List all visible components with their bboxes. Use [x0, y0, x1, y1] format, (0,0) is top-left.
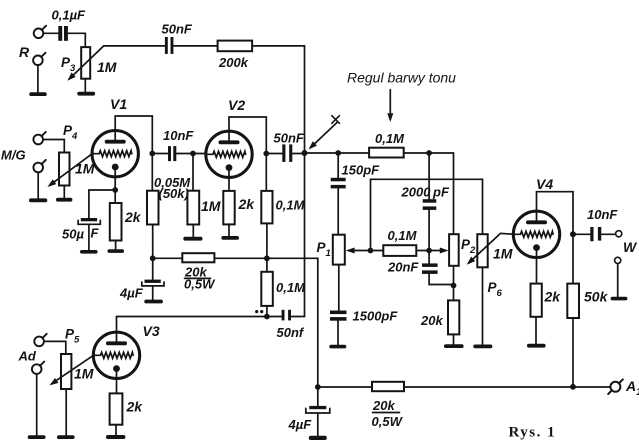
resistor 200k: [218, 41, 253, 52]
wire V1 anode up/right/down: [115, 116, 152, 191]
node wiper junction: [368, 248, 374, 254]
wire 0,1M to node: [416, 250, 429, 252]
svg-text:2k: 2k: [124, 209, 142, 225]
wire Ad to P5: [44, 341, 66, 354]
ground below 1500pF: [329, 345, 346, 349]
P3 wiper arrow: [65, 46, 103, 83]
ground below P3: [77, 92, 95, 96]
wire MG lower to ground: [37, 172, 39, 198]
svg-text:0,1M: 0,1M: [276, 280, 306, 295]
wire 0,1M to P2 corner: [404, 153, 454, 234]
ground below 1M: [183, 237, 202, 241]
wire 20k to ground: [453, 334, 455, 344]
potentiometer P5: [61, 354, 71, 389]
capacitor 1500pF: [330, 311, 347, 321]
terminal R lower: [33, 53, 45, 65]
wire R to C: [43, 32, 58, 34]
svg-text:50µ: 50µ: [62, 227, 84, 242]
wire wiper to 50nF: [104, 45, 165, 47]
resistor 0,05M (50k): [147, 191, 159, 225]
terminal W lower: [615, 257, 621, 263]
node bus left: [150, 255, 156, 261]
resistor 0,1M tone: [369, 148, 404, 158]
terminal W upper: [616, 231, 622, 237]
node bus 0,1M: [264, 255, 270, 261]
wire MG to P4: [43, 140, 64, 153]
wire bus to corner: [214, 258, 317, 387]
wire 1M to ground: [192, 225, 194, 237]
svg-text:50nF: 50nF: [162, 22, 193, 37]
wire node to 50nF: [266, 153, 282, 155]
svg-text:W: W: [623, 239, 638, 255]
wire P2 to junction: [453, 266, 455, 301]
resistor 20k: [448, 300, 459, 334]
svg-text:1M: 1M: [75, 161, 95, 177]
wire node X to 0,1M: [305, 152, 370, 154]
svg-text:A1: A1: [625, 378, 639, 398]
fraction bar: [373, 412, 400, 414]
svg-text:P4: P4: [63, 123, 78, 142]
capacitor 4uF electrolytic bottom: [306, 406, 330, 413]
node cathode V1: [112, 187, 118, 193]
capacitor 150pF: [331, 178, 346, 189]
capacitor 10nF: [168, 146, 176, 161]
wire 50nF to 200k: [173, 45, 217, 47]
wire P6 to ground: [482, 267, 484, 344]
svg-text:V3: V3: [143, 323, 160, 339]
wire V2 cathode: [228, 168, 230, 191]
wire 200k down to node X and bottom row: [252, 46, 304, 317]
wire bus to 20k: [318, 386, 372, 388]
wire 0,1M to bottom row: [266, 306, 268, 317]
P4 wiper arrow to V1 grid: [46, 154, 93, 190]
node P2 bottom: [451, 283, 457, 289]
svg-text:2k: 2k: [544, 289, 562, 305]
wire junction to 0,1M: [371, 250, 384, 252]
svg-text:2k: 2k: [238, 196, 256, 212]
wire P1 to 1500pF: [338, 265, 340, 311]
P1 wiper arrow: [346, 248, 371, 254]
wire node to 10nF: [573, 233, 590, 235]
resistor 20k 0,5W bottom: [372, 382, 404, 391]
resistor 20k 0,5W: [182, 253, 214, 262]
resistor 0,1M shelving: [383, 245, 416, 256]
resistor 2k V2: [223, 191, 234, 225]
resistor 50k: [567, 284, 579, 318]
capacitor 0.1uF: [58, 26, 68, 41]
triode V3: [93, 332, 139, 378]
wire junction up over to P6: [371, 179, 483, 250]
wire V4 anode up/right/down: [537, 192, 574, 284]
svg-text:150pF: 150pF: [342, 163, 381, 178]
wire cathode to 50uF: [89, 190, 115, 218]
wire node to 4uF: [152, 258, 154, 279]
ground below MG: [29, 198, 47, 202]
wire V3 anode up: [116, 317, 118, 342]
svg-text:P6: P6: [488, 280, 503, 299]
dot 2: [260, 310, 263, 313]
dots ..: [255, 310, 258, 313]
svg-text:200k: 200k: [218, 55, 249, 70]
wire 10nF to V2 grid: [176, 153, 206, 155]
terminal Ad upper: [34, 334, 46, 346]
ground below 20k: [444, 344, 464, 348]
wire C to P3: [68, 33, 85, 47]
svg-text:2000: 2000: [401, 185, 432, 200]
wire V3 cathode: [116, 369, 118, 394]
wire 0,1M to bus: [266, 223, 268, 271]
ground below W: [611, 297, 628, 301]
potentiometer P4: [59, 153, 70, 186]
svg-text:0,1µF: 0,1µF: [52, 8, 87, 23]
resistor 2k V4: [531, 284, 542, 317]
capacitor 50nF top: [165, 37, 174, 54]
node anode V4: [570, 231, 576, 237]
wire V1 cathode: [114, 167, 116, 203]
node 150pF: [335, 150, 341, 156]
capacitor 50nF V2 out: [282, 144, 292, 162]
ground below 2k V1: [108, 249, 125, 253]
capacitor 2000pF: [423, 199, 437, 210]
svg-text:P1: P1: [317, 240, 331, 259]
wire 50uF to ground: [88, 224, 90, 250]
ground below 2k V4: [527, 344, 546, 348]
wire P5 to ground: [65, 389, 67, 435]
wire 2k to ground: [115, 241, 117, 250]
node bottom row: [264, 314, 270, 320]
wire 10nF to W: [602, 233, 616, 235]
ground below P5: [57, 435, 75, 439]
terminal R upper: [34, 26, 46, 38]
wire Ad lower to ground: [36, 374, 38, 436]
wire 50nF to vertical: [291, 316, 304, 318]
ground below 4uF: [309, 436, 327, 440]
svg-text:(50k): (50k): [159, 186, 189, 201]
svg-text:V2: V2: [228, 97, 245, 113]
terminal M/G lower: [33, 160, 45, 172]
svg-text:pF: pF: [432, 185, 450, 200]
svg-text:V1: V1: [110, 96, 127, 112]
ground below 2k V2: [221, 236, 239, 240]
terminal Ad lower: [32, 362, 44, 374]
svg-text:P5: P5: [65, 327, 80, 346]
ground below 4uF: [144, 300, 163, 304]
wire 50k to bottom bus: [572, 318, 574, 387]
svg-text:1500pF: 1500pF: [353, 309, 399, 324]
wire 2000pF upper: [428, 153, 430, 199]
wire 4uF to ground: [152, 286, 154, 300]
svg-text:M/G: M/G: [1, 148, 26, 163]
arrow below label: [387, 90, 393, 123]
wire node to 10nF: [152, 153, 168, 155]
wire R lower to ground: [37, 65, 39, 92]
potentiometer P1: [333, 235, 345, 265]
arrow to node X: [306, 123, 337, 152]
svg-text:0,1M: 0,1M: [276, 198, 306, 213]
wire 2k to ground: [228, 224, 230, 236]
svg-text:P2: P2: [461, 237, 476, 256]
ground below R: [29, 92, 46, 96]
svg-text:20k: 20k: [420, 313, 443, 328]
node 2000pF: [426, 150, 432, 156]
svg-text:1M: 1M: [201, 198, 221, 214]
node X junction: [302, 150, 308, 156]
P5 wiper arrow to V3 grid: [48, 355, 94, 388]
svg-text:P3: P3: [61, 55, 76, 74]
wire P4 to ground: [63, 186, 65, 198]
wire V4 cathode: [536, 248, 538, 284]
wire 0,05M to bus: [152, 225, 154, 259]
wire bottom row V3 anode: [117, 316, 282, 318]
wire bus to 20k: [153, 257, 183, 259]
wire node to 150pF: [337, 153, 339, 178]
wire 2k to ground: [115, 425, 117, 435]
svg-text:4µF: 4µF: [288, 417, 313, 432]
wire bus to 4uF: [317, 387, 319, 406]
svg-text:Rys. 1: Rys. 1: [509, 425, 557, 441]
wire node down to 1M: [192, 154, 194, 191]
svg-text:1M: 1M: [74, 366, 94, 382]
capacitor 50nF bottom: [282, 310, 291, 321]
svg-text:10nF: 10nF: [587, 207, 618, 222]
ground below Ad: [28, 435, 46, 439]
svg-text:F: F: [91, 226, 100, 241]
ground below 2k V3: [106, 435, 125, 439]
svg-text:2k: 2k: [126, 399, 144, 415]
wire W lower to ground: [617, 264, 619, 297]
ground below 50uF: [80, 250, 98, 254]
wire V2 anode up/right/down: [229, 117, 266, 191]
wire 20k to A1: [404, 386, 610, 388]
P2 wiper arrow: [429, 248, 449, 254]
terminal A1: [608, 379, 623, 394]
wire 1500pF to ground: [337, 321, 339, 345]
node right of 0,1M: [426, 248, 432, 254]
wire node to 20nF: [428, 251, 430, 264]
wire 4uF to ground: [317, 413, 319, 436]
svg-text:20nF: 20nF: [387, 260, 419, 275]
svg-text:V4: V4: [536, 176, 553, 192]
ground below P6: [473, 345, 492, 349]
P6 wiper arrow to V4 grid: [465, 233, 514, 267]
capacitor 50uF electrolytic: [78, 218, 100, 224]
svg-text:50nf: 50nf: [277, 325, 305, 340]
ground below P4: [56, 198, 72, 202]
svg-text:R: R: [19, 44, 30, 60]
wire P3 to ground: [84, 79, 86, 92]
capacitor 4uF electrolytic: [142, 280, 164, 286]
svg-text:50nF: 50nF: [274, 131, 305, 146]
capacitor 20nF: [422, 263, 438, 274]
svg-text:0,1M: 0,1M: [375, 131, 405, 146]
potentiometer P3: [81, 47, 90, 79]
wire 2000pF lower: [428, 210, 430, 250]
svg-text:10nF: 10nF: [163, 128, 194, 143]
terminal M/G upper: [33, 132, 45, 144]
node bus corner: [315, 384, 321, 390]
svg-text:0,5W: 0,5W: [184, 277, 216, 292]
x mark: [332, 116, 340, 124]
svg-text:0,1M: 0,1M: [388, 228, 418, 243]
wire 150pF to P1: [337, 189, 339, 235]
fraction bar: [185, 277, 211, 279]
wire 20nF to P2 bottom: [429, 274, 453, 284]
svg-text:20k: 20k: [372, 398, 395, 413]
resistor 0,1M second: [261, 272, 273, 306]
svg-text:1M: 1M: [493, 246, 513, 262]
resistor 2k V1: [110, 203, 122, 241]
resistor 1M: [187, 191, 199, 225]
svg-text:Ad: Ad: [18, 349, 37, 364]
svg-text:50k: 50k: [584, 289, 609, 305]
node grid V2: [190, 151, 196, 157]
resistor 2k V3: [110, 393, 123, 424]
wire 50nF to node X: [292, 153, 304, 155]
resistor 0,1M anode load: [261, 191, 272, 224]
node anode V2: [263, 151, 269, 157]
capacitor 10nF out: [590, 227, 601, 241]
wire 2k to ground: [535, 317, 537, 344]
potentiometer P2: [449, 234, 459, 266]
svg-text:1M: 1M: [97, 59, 117, 75]
svg-text:0,5W: 0,5W: [372, 414, 404, 429]
svg-text:4µF: 4µF: [119, 286, 144, 301]
node anode V1: [149, 151, 155, 157]
potentiometer P6 1M: [477, 234, 487, 267]
svg-text:Regul barwy tonu: Regul barwy tonu: [347, 70, 456, 86]
node 50k bus: [570, 384, 576, 390]
